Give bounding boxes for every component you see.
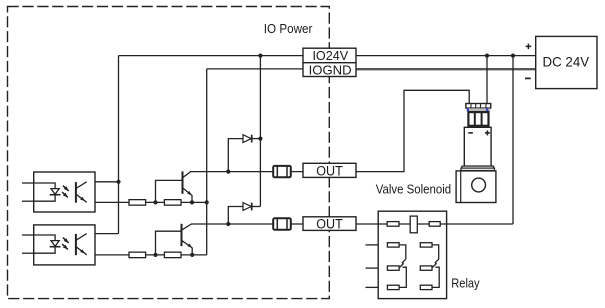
svg-text:DC 24V: DC 24V	[543, 53, 590, 69]
svg-text:IO Power: IO Power	[264, 21, 313, 36]
svg-text:IOGND: IOGND	[309, 63, 352, 78]
svg-text:OUT: OUT	[316, 164, 343, 179]
svg-text:OUT: OUT	[316, 216, 343, 231]
svg-text:Valve Solenoid: Valve Solenoid	[376, 182, 451, 197]
svg-text:IO24V: IO24V	[312, 48, 348, 63]
svg-text:Relay: Relay	[451, 275, 480, 290]
